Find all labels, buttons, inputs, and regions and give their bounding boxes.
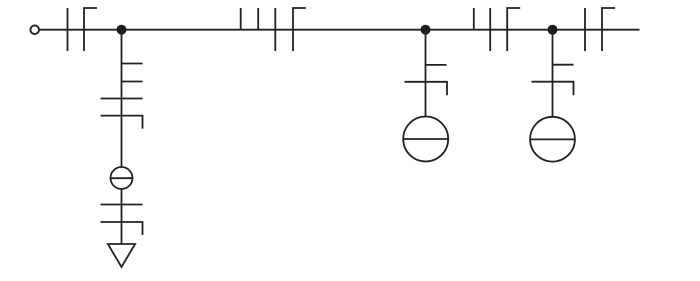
switch S10 (middle group short bar 2) (257, 8, 259, 30)
switch S1 (left group, first bar) (67, 8, 69, 51)
disconnector S6 (branch 1 bar with hook) (101, 116, 143, 129)
generator G1 (large circle with chord) (403, 117, 448, 162)
disconnector S14 (branch 2 bar with hook) (405, 82, 448, 96)
disconnector S2 (left group, bar with hook) (84, 8, 97, 51)
switch S3 (branch 1 short tick 1) (122, 63, 143, 65)
wire (branch 1 upper vertical) (121, 30, 123, 168)
node C (junction dot 3) (548, 25, 558, 35)
disconnector S21 (right group bar with hook) (602, 8, 615, 51)
switch S15 (group C short bar) (473, 8, 475, 30)
wire (main horizontal bus) (39, 29, 639, 31)
wire (branch 3 vertical) (552, 30, 554, 117)
disconnector S17 (group C bar with hook) (507, 8, 520, 51)
disconnector S8 (branch 1 lower bar with hook) (101, 222, 143, 235)
switch S11 (middle group full bar) (274, 8, 276, 51)
node B (junction dot 2) (421, 25, 431, 35)
generator G2 (large circle with chord) (530, 117, 575, 162)
switch S16 (group C full bar) (489, 8, 491, 51)
switch S7 (branch 1 lower full bar) (101, 204, 143, 206)
switch S13 (branch 2 short tick) (426, 64, 447, 66)
node A (junction dot 1) (117, 25, 127, 35)
terminal (source connection point) (30, 25, 39, 34)
disconnector S19 (branch 3 bar with hook) (532, 82, 574, 96)
switch S9 (middle group short bar 1) (240, 8, 242, 30)
switch S20 (right group full bar) (584, 8, 586, 51)
switch S5 (branch 1 full bar) (101, 98, 143, 100)
wire (branch 1 lower vertical) (121, 189, 123, 244)
ground (earth triangle) (108, 244, 135, 267)
switch S4 (branch 1 short tick 2) (122, 81, 143, 83)
switch S18 (branch 3 short tick) (553, 64, 574, 66)
disconnector S12 (middle group bar with hook) (293, 8, 306, 51)
wire (branch 2 vertical) (425, 30, 427, 117)
instrument M1 (small circle with chord) (111, 167, 133, 189)
